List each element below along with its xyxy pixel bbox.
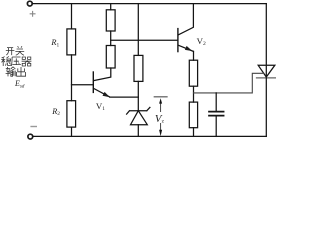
wire col1 top <box>71 4 73 29</box>
svg-text:Vz: Vz <box>155 113 165 125</box>
resistor R1 <box>67 29 76 55</box>
transistor V2 <box>177 29 179 52</box>
minus sign label <box>31 126 36 128</box>
resistor (gate series) <box>189 60 197 86</box>
wire col1 bottom <box>71 127 73 136</box>
wire zener to bottom rail <box>137 125 139 137</box>
char 压 <box>11 57 21 66</box>
wire col2 top stub <box>110 4 112 10</box>
wire top rail <box>32 3 266 5</box>
zener diode VZ <box>127 107 150 114</box>
wire bottom rail <box>33 135 266 137</box>
terminal + (top left) <box>27 1 32 6</box>
resistor (V1 collector load) <box>106 46 115 69</box>
resistor (gate-cathode) <box>189 102 197 128</box>
thyristor cathode bar <box>257 77 276 79</box>
svg-text:Esd: Esd <box>14 79 25 89</box>
V2 collector <box>178 4 193 35</box>
capacitor stub bottom <box>215 116 217 136</box>
char 关 <box>15 46 24 55</box>
wire right rail lower <box>265 78 267 136</box>
char 出 <box>17 67 26 76</box>
char 输 <box>6 67 16 77</box>
char 开 <box>6 48 15 56</box>
capacitor stub top <box>215 93 217 111</box>
transistor V1 <box>92 72 94 92</box>
wire V2 base (horizontal) <box>111 39 178 41</box>
V1 emitter <box>94 88 110 97</box>
wire col3 mid <box>137 81 139 110</box>
wire V1 emitter to zener <box>110 96 139 98</box>
plus sign label <box>30 11 35 16</box>
wire gate junction <box>193 86 195 102</box>
char 器 <box>22 57 32 66</box>
V2 emitter <box>178 45 193 51</box>
svg-text:R2: R2 <box>51 107 60 117</box>
resistor R2 <box>67 101 76 127</box>
voltage annotation Vz bar <box>154 96 167 98</box>
svg-text:R1: R1 <box>50 38 59 48</box>
capacitor C <box>209 112 224 116</box>
wire V2 emitter <box>193 51 195 60</box>
thyristor VS (triangle) <box>258 65 275 77</box>
resistor (V2 base pull-up) <box>106 10 115 31</box>
wire col1 middle <box>71 55 73 101</box>
wire col2 to V1 collector <box>94 68 111 81</box>
wire col3 top <box>137 4 139 56</box>
wire to bottom rail <box>193 128 195 137</box>
svg-text:V2: V2 <box>197 36 206 47</box>
terminal - (bottom left) <box>28 134 33 139</box>
text 开关稳压器输出 (hand-drawn strokes) <box>1 46 31 76</box>
resistor (zener bias) <box>134 55 143 81</box>
char 稳 <box>1 56 11 66</box>
voltage annotation arrows <box>160 103 162 131</box>
wire col2 mid <box>110 31 112 46</box>
svg-text:V1: V1 <box>96 101 105 112</box>
wire V1 base <box>72 84 93 86</box>
wire right rail upper <box>265 4 267 78</box>
wire thyristor gate <box>194 73 264 93</box>
